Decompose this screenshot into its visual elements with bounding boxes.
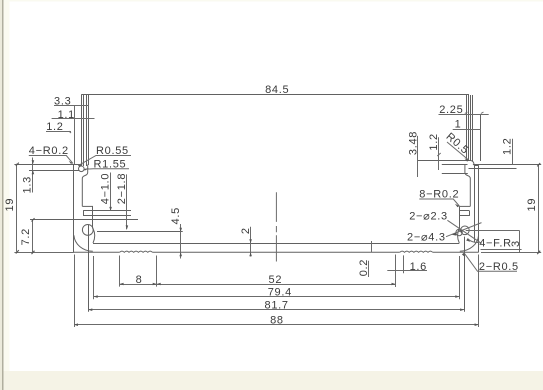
svg-text:81.7: 81.7 bbox=[265, 299, 289, 311]
bottom plate top surface bbox=[93, 243, 459, 245]
arrow 2-R0.5 bbox=[462, 253, 465, 257]
dim 7.2 line bbox=[32, 220, 34, 253]
svg-text:1.1: 1.1 bbox=[58, 109, 75, 121]
svg-text:1: 1 bbox=[455, 118, 462, 130]
right wall inner lower face bbox=[459, 206, 461, 228]
svg-text:1.2: 1.2 bbox=[46, 121, 63, 133]
left boss centerline / 81.7 ext bbox=[88, 225, 90, 312]
left fin wall lines bbox=[81, 95, 83, 167]
leader R1.55 bbox=[84, 168, 129, 171]
svg-text:4.5: 4.5 bbox=[170, 207, 182, 224]
dim 3.3 ext vertical bbox=[74, 105, 76, 164]
svg-text:79.4: 79.4 bbox=[268, 287, 292, 299]
bottom outer surface with serrations bbox=[74, 251, 120, 253]
svg-text:4−F.R: 4−F.R bbox=[479, 238, 512, 250]
svg-text:R0.55: R0.55 bbox=[96, 145, 129, 157]
right screw boss inner circle bbox=[461, 226, 470, 235]
svg-text:R1.55: R1.55 bbox=[94, 159, 127, 171]
dim 3.48 line bbox=[417, 136, 419, 177]
tick on 1.2 dim bbox=[437, 153, 440, 156]
ticks 19 left bbox=[15, 162, 19, 166]
dim 4.5 line bbox=[180, 224, 182, 259]
dim 52 right ext / 1.6 left bbox=[395, 255, 397, 288]
centerline bbox=[275, 192, 277, 261]
right boss centerline / 81.7 ext bbox=[464, 237, 466, 312]
arrow 4-1.0 bbox=[109, 207, 112, 211]
svg-text:4−R0.2: 4−R0.2 bbox=[29, 145, 69, 157]
arrows 52 bbox=[157, 283, 161, 286]
svg-text:2−⌀4.3: 2−⌀4.3 bbox=[407, 231, 446, 243]
left wall inner face with s-curve bbox=[82, 165, 87, 207]
svg-text:88: 88 bbox=[270, 314, 284, 326]
dim 1 line bbox=[453, 129, 481, 131]
left wall top step line (ext 164.2) bbox=[14, 164, 81, 166]
dim 79.4 line bbox=[94, 296, 460, 298]
dim 8 ext lines bbox=[119, 256, 121, 287]
leader 2-R0.5 bbox=[464, 253, 517, 271]
dim 3.3 line bbox=[54, 105, 89, 107]
dim 19 right bottom ext bbox=[481, 252, 541, 254]
dim 2 line bbox=[250, 227, 252, 257]
right wall groove line bbox=[474, 165, 476, 242]
arrow 2-1.8 bbox=[126, 225, 129, 229]
dim 19 right line bbox=[538, 165, 540, 253]
dim 1.6 line bbox=[387, 270, 427, 272]
svg-text:4−1.0: 4−1.0 bbox=[100, 173, 112, 204]
bottom beige strip bbox=[4, 371, 543, 390]
svg-text:19: 19 bbox=[4, 198, 16, 212]
dim 88 line bbox=[74, 324, 479, 326]
svg-text:84.5: 84.5 bbox=[265, 84, 289, 96]
arrows 8 bbox=[120, 283, 124, 286]
arrows 79.4 bbox=[94, 295, 98, 298]
arrow 4-F.R3 bbox=[466, 239, 470, 242]
svg-text:1.6: 1.6 bbox=[410, 261, 427, 273]
right wall top lines bbox=[417, 160, 470, 162]
ticks 7.2 bbox=[31, 218, 35, 222]
svg-text:2−1.8: 2−1.8 bbox=[116, 173, 128, 204]
left shelf line (ext to right) bbox=[30, 219, 138, 221]
svg-text:1.2: 1.2 bbox=[502, 138, 514, 155]
svg-text:1.2: 1.2 bbox=[428, 133, 440, 150]
profile top edge / dimension line 84.5 bbox=[81, 94, 469, 96]
left wall inner lower face bbox=[92, 206, 94, 228]
dim 19 left line bbox=[16, 164, 18, 252]
leader 4-R0.2 bbox=[29, 156, 73, 164]
dim 81.7 line bbox=[88, 309, 464, 311]
svg-text:0.2: 0.2 bbox=[358, 259, 370, 276]
right wall outer face bbox=[478, 165, 480, 252]
svg-text:2: 2 bbox=[240, 227, 252, 234]
4-F.R3 callout lines bbox=[466, 230, 520, 232]
arrows 4.5 bbox=[179, 228, 182, 232]
svg-text:3: 3 bbox=[510, 240, 522, 247]
svg-text:2.25: 2.25 bbox=[439, 104, 463, 116]
dim 2.25 line bbox=[439, 114, 489, 116]
svg-text:19: 19 bbox=[526, 198, 538, 212]
foot pad top line left (4.5 ext) bbox=[97, 231, 183, 233]
dim 0.2 line bbox=[368, 261, 370, 277]
dim 2.25 ticks bbox=[465, 112, 468, 114]
boss crossing leaders bbox=[446, 223, 482, 237]
left slot top edge bbox=[82, 205, 93, 207]
right screw boss outer circle bbox=[456, 229, 462, 235]
svg-text:2−⌀2.3: 2−⌀2.3 bbox=[409, 211, 448, 223]
svg-text:7.2: 7.2 bbox=[20, 228, 32, 245]
dim 2-1.8 line bbox=[126, 174, 128, 229]
arrow 4-R0.2 bbox=[69, 161, 73, 164]
left boss opening wiggle bbox=[93, 229, 95, 244]
left corner hollow arc bbox=[74, 235, 93, 251]
dim 1.1 line bbox=[52, 118, 95, 120]
left screw boss circle bbox=[82, 225, 93, 236]
arrows 2 bbox=[249, 239, 252, 243]
top faint strip bbox=[4, 0, 543, 2]
left wall step lower line (ext 170.3) bbox=[29, 170, 79, 172]
dim 1.2 line (left of right wall) bbox=[438, 137, 440, 170]
right corner hollow arc bbox=[460, 235, 479, 251]
arrows 81.7 bbox=[88, 308, 92, 311]
left slot lines extended to 2-1.8 dim bbox=[83, 210, 131, 212]
svg-text:1.3: 1.3 bbox=[22, 176, 34, 193]
svg-text:3.48: 3.48 bbox=[408, 131, 420, 155]
right wall groove top bbox=[474, 165, 479, 167]
leader 8-R0.2 bbox=[419, 199, 459, 206]
dim 4-1.0 line bbox=[110, 173, 112, 211]
svg-text:8: 8 bbox=[136, 274, 143, 286]
arrows 1.3 bbox=[32, 160, 35, 164]
leader R0.5 bbox=[447, 142, 469, 160]
dim 1.2 right line bbox=[512, 139, 514, 165]
arrows 88 bbox=[74, 323, 78, 326]
right boss opening wiggle bbox=[458, 229, 460, 244]
left wall outer face bbox=[73, 164, 75, 252]
svg-text:3.3: 3.3 bbox=[54, 95, 71, 107]
leader R0.55 bbox=[78, 156, 131, 166]
ticks 19 right bbox=[537, 163, 541, 167]
arrow R1.55 bbox=[84, 168, 89, 171]
left window edge strip bbox=[0, 0, 2, 390]
right wall inner face with s-curve bbox=[465, 165, 470, 207]
dim 19/7.2 bottom ext bbox=[14, 252, 74, 254]
right fin wall lines bbox=[466, 95, 468, 161]
right wall top corner round bbox=[470, 160, 474, 165]
dim 8/52 line bbox=[120, 284, 396, 286]
dim 1.2 line bbox=[46, 131, 71, 133]
dim 1.3 line bbox=[32, 158, 34, 193]
svg-text:2−R0.5: 2−R0.5 bbox=[479, 261, 519, 273]
arrow 2-o4.3 bbox=[452, 233, 457, 236]
svg-text:52: 52 bbox=[269, 274, 283, 286]
small circle R1.55 at left wall top bbox=[79, 166, 85, 172]
arrow R0.55 bbox=[78, 164, 83, 167]
right slot top edge bbox=[459, 205, 470, 207]
arrow 8-R0.2 bbox=[455, 204, 459, 207]
4-F.R3 underline bbox=[481, 249, 522, 251]
svg-text:8−R0.2: 8−R0.2 bbox=[419, 189, 459, 201]
arrow R0.5 bbox=[465, 158, 469, 161]
arrow 2-o2.3 bbox=[458, 230, 463, 233]
right slot lines bbox=[459, 210, 469, 212]
leader 4-F.R3 bbox=[468, 239, 479, 243]
